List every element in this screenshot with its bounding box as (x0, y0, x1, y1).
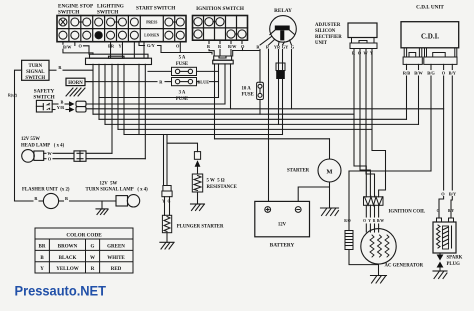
head lamp connector (74, 151, 86, 161)
svg-text:M: M (326, 168, 332, 175)
rectifier wire W down to generator (366, 49, 375, 197)
bus: B/W to CDI (105, 123, 419, 125)
svg-text:B/W: B/W (377, 219, 384, 223)
R/O bottom wire to generator ground line (349, 250, 379, 265)
svg-text:O: O (437, 209, 440, 213)
svg-text:STARTER: STARTER (287, 168, 310, 173)
svg-text:UNIT: UNIT (315, 41, 328, 46)
wire G/Y + O to ignition connector (161, 53, 212, 55)
svg-text:WHITE: WHITE (107, 256, 125, 261)
10A fuse (257, 82, 264, 99)
svg-text:BLACK: BLACK (59, 256, 77, 261)
wire Y from lighting switch (121, 42, 123, 57)
svg-text:TURN: TURN (29, 64, 43, 69)
10A fuse bottom wire to R bus (259, 100, 261, 115)
svg-text:G: G (91, 245, 95, 250)
svg-text:B/Y: B/Y (449, 192, 457, 197)
svg-text:SPARK: SPARK (447, 256, 463, 261)
svg-text:Y: Y (40, 267, 44, 272)
generator connector wires down (365, 205, 367, 217)
switch contact circles bottom row (59, 31, 184, 39)
bus: lighting to generator (118, 128, 372, 130)
ignition switch wires to connector (208, 40, 210, 43)
wire G/Y from start switch (139, 42, 145, 46)
svg-text:12V 5W: 12V 5W (100, 181, 118, 186)
harness wire 8 (head lamp O feed) (144, 64, 146, 158)
ignition coil (389, 209, 455, 215)
rectifier wire Y down to generator (372, 49, 386, 197)
resistance (5W 5ohm) (192, 174, 202, 192)
ground (turn lamp) (96, 209, 108, 215)
svg-text:B/G: B/G (427, 71, 435, 76)
svg-text:IGNITION SWITCH: IGNITION SWITCH (196, 6, 244, 12)
safety switch wire B (52, 103, 58, 105)
horn ground hatches (66, 88, 85, 96)
svg-text:G/Y: G/Y (147, 43, 156, 48)
relay wire YR (278, 50, 280, 125)
svg-text:YELLOW: YELLOW (56, 267, 79, 272)
svg-text:BROWN: BROWN (58, 245, 78, 250)
svg-text:B/W: B/W (63, 44, 72, 49)
svg-text:5 W 5 Ω: 5 W 5 Ω (207, 179, 225, 184)
turn signal switch (22, 60, 49, 80)
bus: to plunger column (124, 134, 283, 136)
svg-text:PRESS: PRESS (146, 20, 157, 24)
wire R(x2) down left side (15, 70, 22, 201)
svg-text:B/Y: B/Y (449, 71, 457, 76)
svg-text:3 A: 3 A (179, 91, 186, 96)
bracket to resistance (166, 135, 168, 186)
svg-text:R: R (91, 267, 95, 272)
svg-text:BATTERY: BATTERY (270, 243, 295, 249)
wire B/W from engine stop switch (62, 42, 64, 45)
svg-text:R: R (373, 219, 376, 223)
harness wire 4 (111, 64, 113, 153)
starter motor feed (329, 139, 331, 159)
bus: ignition B to starter motor (215, 138, 330, 140)
plunger feed wires (164, 197, 166, 216)
harness wire 5 (117, 64, 119, 129)
ignition switch block (193, 16, 248, 41)
main switch block (engine stop / lighting / start) (57, 16, 186, 42)
wire O from engine stop switch (74, 42, 76, 46)
svg-text:R/B: R/B (403, 71, 410, 76)
harness wire 7 (138, 64, 140, 134)
harness wire 6 (123, 64, 125, 134)
bus: safety Y/R (86, 108, 444, 110)
relay wire G (291, 50, 293, 109)
svg-text:IGNITION COIL: IGNITION COIL (389, 210, 426, 215)
3A fuse wires (horn feed) (85, 81, 157, 83)
5A fuse wires (148, 70, 172, 72)
svg-text:PLUNGER STARTER: PLUNGER STARTER (177, 224, 224, 229)
R/O resistor component (345, 231, 353, 250)
svg-text:10 A: 10 A (242, 87, 252, 92)
bus: R ignition feed (99, 97, 219, 99)
svg-text:W: W (47, 151, 52, 156)
flasher wire B (59, 200, 64, 202)
5A fuse (172, 67, 197, 75)
plunger ground (166, 233, 168, 243)
starter motor ground (329, 182, 331, 208)
main harness connector under switch block (86, 54, 152, 64)
relay wire GY (282, 50, 284, 135)
CDI wire B/G (430, 64, 432, 69)
flasher wire R (15, 200, 34, 202)
CDI wire R/B (406, 64, 408, 69)
svg-text:ADJUSTER: ADJUSTER (315, 23, 341, 28)
svg-text:C.D.I.: C.D.I. (421, 33, 439, 41)
ignition switch connector (213, 56, 234, 64)
plunger connector (162, 186, 172, 197)
generator ground (378, 264, 380, 276)
svg-text:C.D.I. UNIT: C.D.I. UNIT (416, 5, 444, 11)
svg-text:FUSE: FUSE (176, 62, 188, 67)
battery (255, 201, 310, 236)
relay lead fan (260, 37, 272, 46)
PRESS / LOOSEN cell text (144, 20, 159, 37)
safety switch (33, 89, 54, 101)
svg-text:SWITCH: SWITCH (33, 95, 54, 101)
svg-text:COLOR CODE: COLOR CODE (66, 232, 102, 238)
svg-text:HORN: HORN (68, 81, 83, 86)
rectifier wire O down to generator (360, 49, 370, 197)
wire O from start switch (179, 42, 181, 53)
lower O / B-Y labels above coil (441, 192, 457, 197)
svg-text:Y/R: Y/R (57, 105, 65, 110)
svg-text:B: B (207, 44, 210, 49)
ignition switch wire labels (207, 44, 245, 49)
svg-text:B: B (65, 196, 68, 201)
svg-text:B/Y: B/Y (448, 209, 454, 213)
spark plug connector triangles (439, 253, 441, 255)
svg-text:BR: BR (39, 245, 46, 250)
svg-text:RECTIFIER: RECTIFIER (315, 35, 342, 40)
svg-text:RED: RED (111, 267, 122, 272)
resistance ground (197, 192, 199, 204)
CDI unit (416, 5, 444, 11)
wire R from turn signal switch to harness (49, 69, 56, 71)
head lamp (21, 137, 65, 149)
relay wire R1 to 10A fuse (259, 50, 261, 83)
plunger column Y wire (163, 135, 165, 186)
horn (66, 78, 85, 85)
bullet connector bodies (76, 101, 86, 106)
svg-text:HEAD LAMP ( x 4): HEAD LAMP ( x 4) (21, 144, 65, 149)
harness wire 2 (98, 64, 100, 119)
head lamp O feed wire (86, 158, 145, 160)
turn signal lamp (86, 181, 149, 192)
svg-text:R/O: R/O (344, 219, 351, 223)
ignition harness wire 4 (230, 64, 232, 109)
head lamp W feed wire (86, 152, 112, 154)
bullet connector on resistance wire (194, 152, 200, 160)
ignition harness wire B (214, 64, 216, 139)
CDI wire B/W (418, 64, 420, 69)
svg-text:SIGNAL: SIGNAL (26, 70, 44, 75)
svg-text:W: W (90, 256, 95, 261)
svg-text:B/W: B/W (228, 44, 237, 49)
svg-text:SWITCH: SWITCH (97, 10, 118, 16)
generator connector (364, 197, 384, 206)
battery negative wire (298, 187, 329, 201)
svg-text:FLASHER UNIT (x 2): FLASHER UNIT (x 2) (22, 188, 70, 193)
relay (270, 16, 297, 43)
svg-text:RESISTANCE: RESISTANCE (207, 185, 237, 190)
AC generator (361, 229, 396, 264)
R/O wire up to B/G bus (348, 171, 350, 231)
turn lamp ground drop (101, 201, 103, 209)
svg-text:AC GENERATOR: AC GENERATOR (385, 264, 424, 269)
CDI wire O to ignition coil (443, 64, 445, 69)
adjuster silicon rectifier unit (315, 23, 342, 46)
svg-text:RELAY: RELAY (274, 8, 292, 14)
ignition harness wire 3 (224, 64, 226, 104)
svg-text:BLUE: BLUE (197, 79, 209, 84)
wire BR from lighting switch (110, 42, 112, 57)
svg-text:PLUG: PLUG (447, 262, 461, 267)
svg-text:Y: Y (368, 219, 371, 223)
safety switch wire Y/R (52, 109, 55, 111)
svg-text:O: O (363, 219, 366, 223)
ignition harness wire R (218, 64, 220, 98)
bus: B/G long (349, 170, 431, 172)
generator wire labels (344, 219, 384, 223)
color code table (35, 228, 133, 273)
harness wire 3 (104, 64, 106, 124)
spark plug ground (439, 268, 441, 272)
svg-text:R(x2): R(x2) (8, 94, 18, 98)
svg-text:GREEN: GREEN (107, 245, 125, 250)
harness wire 1 (92, 64, 94, 114)
relay wire R2 (268, 50, 270, 202)
svg-text:LOOSEN: LOOSEN (144, 34, 159, 38)
svg-text:12V 55W: 12V 55W (21, 137, 40, 142)
wire color labels below main block (63, 43, 180, 49)
svg-text:SILICON: SILICON (315, 29, 336, 34)
rectifier wire R down to generator (354, 49, 366, 197)
svg-text:Pressauto.NET: Pressauto.NET (15, 284, 107, 300)
flasher unit (22, 188, 70, 201)
3A fuse (172, 78, 197, 86)
svg-text:BR: BR (108, 43, 115, 48)
svg-text:TURN SIGNAL LAMP ( x 4): TURN SIGNAL LAMP ( x 4) (86, 188, 149, 193)
bus: safety B (86, 103, 225, 105)
CDI wire B/Y to ignition coil (451, 64, 453, 69)
head lamp wire O (44, 158, 46, 160)
svg-text:B: B (61, 99, 64, 104)
starter motor (287, 168, 310, 173)
svg-text:B/W: B/W (414, 71, 423, 76)
head lamp wire W (44, 152, 46, 154)
bullet connector arrows (69, 101, 75, 106)
svg-text:YR: YR (274, 45, 281, 50)
bus: main R to rectifier (93, 113, 354, 115)
watermark (15, 284, 107, 300)
svg-text:START SWITCH: START SWITCH (136, 6, 175, 12)
svg-text:FUSE: FUSE (242, 93, 254, 98)
wires into connector from start switch (133, 42, 135, 57)
svg-text:SWITCH: SWITCH (25, 76, 45, 81)
svg-text:SWITCH: SWITCH (58, 10, 79, 16)
bus: R/B to CDI (99, 118, 407, 120)
switch contact circles top row (59, 18, 184, 26)
horn wire junction (85, 81, 93, 83)
labels above main switch block (58, 4, 244, 16)
inline connector on YR/GY wires (276, 63, 285, 79)
svg-text:5 A: 5 A (179, 56, 186, 61)
plunger starter (162, 215, 171, 232)
svg-text:12V: 12V (278, 222, 287, 227)
